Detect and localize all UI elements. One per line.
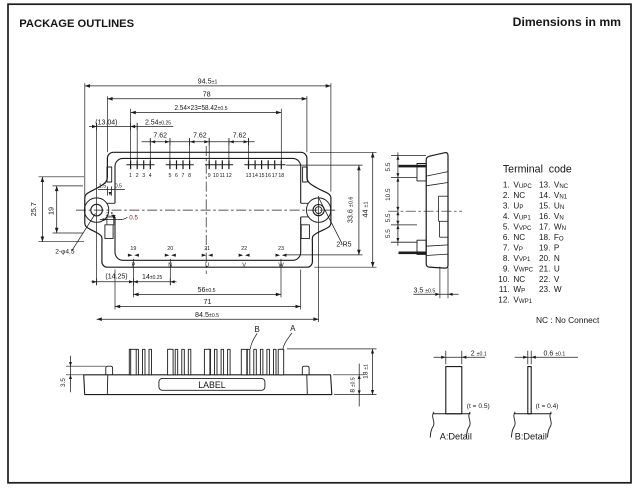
- svg-text:18: 18: [278, 173, 284, 179]
- side view bottom pins: [399, 252, 427, 255]
- svg-text:2-R5: 2-R5: [336, 241, 351, 248]
- svg-text:10: 10: [213, 173, 219, 179]
- LABEL box: [159, 378, 265, 390]
- svg-text:FO: FO: [554, 233, 564, 242]
- A detail pin: [446, 367, 462, 414]
- side view top pin boss: [417, 164, 426, 181]
- dimension 19: [56, 186, 58, 233]
- svg-text:23.: 23.: [539, 285, 550, 294]
- svg-text:V: V: [554, 275, 560, 284]
- svg-text:7.62: 7.62: [233, 133, 247, 140]
- svg-text:8.: 8.: [503, 254, 510, 263]
- svg-text:NC: NC: [513, 275, 525, 284]
- case slot bottom-right: [301, 225, 309, 239]
- svg-text:2: 2: [136, 173, 139, 179]
- pin dim extension lines: [131, 109, 282, 161]
- svg-text:VVPC: VVPC: [513, 223, 532, 232]
- svg-text:10.: 10.: [498, 275, 509, 284]
- svg-text:2 ±0.1: 2 ±0.1: [471, 350, 487, 357]
- bottom pin letters P N U V W: [132, 262, 285, 268]
- svg-text:3: 3: [142, 173, 145, 179]
- svg-text:12.: 12.: [498, 296, 509, 305]
- svg-text:7: 7: [182, 173, 185, 179]
- bottom pin marks 19-23: [128, 254, 133, 257]
- svg-text:5: 5: [168, 173, 171, 179]
- svg-text:A:Detail: A:Detail: [440, 432, 472, 442]
- svg-text:VNC: VNC: [554, 181, 569, 190]
- bottom extension lines: [115, 259, 301, 310]
- svg-text:84.5±0.5: 84.5±0.5: [195, 310, 219, 319]
- svg-text:15: 15: [259, 173, 265, 179]
- svg-text:0.6 ±0.1: 0.6 ±0.1: [544, 350, 566, 357]
- top pin group bars: [126, 164, 285, 166]
- bottom view flange: [84, 375, 332, 395]
- top pin numbers 1-18: [129, 173, 284, 179]
- module body outline (top view): [85, 152, 331, 267]
- case slot top-left: [107, 167, 112, 182]
- svg-text:Terminal code: Terminal code: [503, 163, 572, 175]
- svg-text:17: 17: [272, 173, 278, 179]
- A detail dimension 2 +-0.1: [434, 356, 486, 358]
- dimension 1.5 / 0.5 top left: [98, 188, 125, 190]
- svg-text:11.: 11.: [499, 285, 510, 294]
- svg-text:16: 16: [265, 173, 271, 179]
- svg-text:UN: UN: [554, 202, 564, 211]
- svg-text:25.7: 25.7: [29, 202, 38, 216]
- svg-text:2.54±0.25: 2.54±0.25: [145, 119, 171, 126]
- svg-text:2.: 2.: [503, 191, 510, 200]
- svg-text:19: 19: [130, 246, 136, 252]
- svg-text:VUPC: VUPC: [513, 181, 532, 190]
- svg-text:3.: 3.: [503, 202, 510, 211]
- right mounting boss ring: [306, 198, 330, 222]
- svg-text:N: N: [554, 254, 560, 263]
- dimension (14.25) and 14 +-0.25: [92, 281, 177, 283]
- svg-text:13.: 13.: [539, 181, 550, 190]
- A detail break lines: [430, 412, 434, 438]
- svg-text:VWPC: VWPC: [513, 264, 533, 273]
- dimension 25.7: [41, 177, 43, 242]
- svg-text:A: A: [290, 324, 296, 333]
- svg-text:(13.04): (13.04): [95, 119, 117, 126]
- svg-text:2-φ4.5: 2-φ4.5: [55, 249, 75, 256]
- svg-text:4.: 4.: [503, 212, 510, 221]
- side view top pins: [399, 165, 427, 168]
- svg-text:0.5: 0.5: [115, 184, 122, 190]
- dimension 71: [115, 306, 301, 308]
- svg-text:VN: VN: [554, 212, 564, 221]
- svg-text:94.5±1: 94.5±1: [198, 76, 218, 85]
- dimension 2.5 / 0.5 at left hole: [100, 219, 122, 221]
- svg-text:19.: 19.: [539, 243, 550, 252]
- svg-text:7.62: 7.62: [153, 133, 167, 140]
- svg-text:NC : No Connect: NC : No Connect: [536, 315, 600, 325]
- side view dimension 3.5 +-0.5: [439, 267, 441, 299]
- svg-text:14±0.25: 14±0.25: [142, 274, 162, 281]
- horizontal centerline: [76, 209, 338, 211]
- svg-text:P: P: [554, 243, 560, 252]
- dimension 2-phi4.5 leader: [72, 213, 96, 251]
- dimension 94.5 +-1: [85, 85, 331, 87]
- inner ledge outline: [115, 158, 301, 203]
- svg-text:B: B: [255, 325, 260, 334]
- svg-text:VUP1: VUP1: [513, 212, 531, 221]
- svg-text:17.: 17.: [539, 223, 550, 232]
- svg-text:UP: UP: [513, 202, 523, 211]
- svg-text:23: 23: [278, 246, 284, 252]
- svg-text:8: 8: [188, 173, 191, 179]
- dimension 84.5 +-0.5: [97, 318, 319, 320]
- svg-text:3.5 ±0.5: 3.5 ±0.5: [414, 287, 436, 294]
- svg-text:8 ±0.5: 8 ±0.5: [350, 377, 357, 392]
- svg-text:12: 12: [226, 173, 232, 179]
- dimension 3.5 bottom view: [70, 356, 72, 393]
- left ear notch lines: [107, 202, 115, 204]
- svg-text:2.5: 2.5: [106, 212, 114, 218]
- B detail break lines: [511, 412, 515, 438]
- svg-text:Dimensions in mm: Dimensions in mm: [513, 15, 622, 29]
- dimension 78: [107, 98, 307, 100]
- dimension 56 +-0.5: [133, 293, 281, 295]
- svg-text:6.: 6.: [503, 233, 510, 242]
- svg-text:14: 14: [252, 173, 258, 179]
- svg-text:20: 20: [167, 246, 173, 252]
- side view 5.5/10.5/5.5/5.5 chain dimension: [397, 152, 399, 245]
- svg-text:5.: 5.: [503, 223, 510, 232]
- dimension 18 +-1: [372, 349, 374, 395]
- svg-text:16.: 16.: [539, 212, 550, 221]
- dimension (13.04) and 2.54 +-0.25: [89, 126, 173, 128]
- svg-text:19: 19: [47, 207, 56, 215]
- svg-text:WN: WN: [554, 223, 566, 232]
- svg-text:5.5: 5.5: [385, 162, 392, 171]
- svg-text:0.5: 0.5: [129, 214, 138, 221]
- svg-text:2.54×23=58.42±0.5: 2.54×23=58.42±0.5: [174, 103, 227, 112]
- svg-text:9.: 9.: [503, 264, 510, 273]
- svg-text:14.: 14.: [539, 191, 550, 200]
- dimension 33.6 +-0.6: [358, 165, 360, 255]
- B detail pin: [528, 367, 531, 414]
- svg-text:4: 4: [149, 173, 152, 179]
- svg-text:VN1: VN1: [554, 191, 568, 200]
- svg-text:78: 78: [203, 89, 211, 98]
- case slot top-right: [303, 167, 308, 182]
- svg-text:B:Detail: B:Detail: [515, 432, 547, 442]
- svg-text:22: 22: [241, 246, 247, 252]
- terminal code list: [498, 181, 568, 305]
- right ear notch lines: [301, 202, 309, 204]
- right hole crosshair: [318, 196, 320, 322]
- dimension 2-R5 leader: [319, 198, 343, 244]
- left mounting boss ring: [84, 198, 108, 222]
- svg-text:15.: 15.: [539, 202, 550, 211]
- svg-text:1.: 1.: [503, 181, 510, 190]
- side view centerline: [388, 210, 462, 212]
- left mounting hole: [91, 204, 103, 216]
- svg-text:11: 11: [220, 173, 225, 179]
- side view case outline: [426, 153, 448, 268]
- svg-text:71: 71: [204, 297, 212, 306]
- svg-text:22.: 22.: [539, 275, 550, 284]
- svg-text:5.5: 5.5: [385, 213, 392, 222]
- svg-text:21: 21: [204, 246, 210, 252]
- svg-text:18.: 18.: [539, 233, 550, 242]
- svg-text:(t = 0.4): (t = 0.4): [536, 403, 559, 410]
- svg-text:44 ±1: 44 ±1: [360, 202, 369, 218]
- svg-text:6: 6: [175, 173, 178, 179]
- svg-text:(14.25): (14.25): [105, 274, 127, 281]
- svg-text:VP: VP: [513, 243, 523, 252]
- svg-text:10.5: 10.5: [385, 188, 392, 201]
- svg-text:7.62: 7.62: [193, 133, 207, 140]
- svg-text:WP: WP: [513, 285, 525, 294]
- dimension 8 +-0.5: [358, 364, 360, 407]
- svg-text:21.: 21.: [539, 264, 550, 273]
- svg-text:18 ±1: 18 ±1: [363, 364, 370, 379]
- svg-text:5.5: 5.5: [385, 229, 392, 238]
- top pin ticks 1-18: [131, 160, 282, 169]
- svg-text:33.6 ±0.6: 33.6 ±0.6: [346, 197, 355, 223]
- B detail dimension 0.6 +-0.1: [515, 356, 578, 358]
- dimension 44 +-1: [372, 152, 374, 267]
- right mounting hole: [313, 205, 324, 216]
- svg-text:1: 1: [129, 173, 132, 179]
- svg-text:(t = 0.5): (t = 0.5): [467, 403, 490, 410]
- case slot bottom-left: [105, 225, 113, 239]
- svg-text:VWP1: VWP1: [513, 296, 532, 305]
- svg-text:1.5: 1.5: [99, 184, 106, 190]
- svg-text:20.: 20.: [539, 254, 550, 263]
- svg-text:U: U: [554, 264, 560, 273]
- bottom view pins comb: [129, 349, 282, 375]
- svg-text:9: 9: [208, 173, 211, 179]
- vertical centerline: [205, 146, 207, 274]
- svg-text:NC: NC: [513, 191, 525, 200]
- svg-text:U: U: [205, 262, 209, 268]
- dimension 7.62 pitch x3: [142, 141, 255, 143]
- bottom view case bumps: [106, 366, 113, 375]
- svg-text:V: V: [242, 262, 246, 268]
- svg-text:NC: NC: [513, 233, 525, 242]
- svg-text:LABEL: LABEL: [198, 380, 225, 390]
- svg-text:56±0.5: 56±0.5: [197, 285, 215, 294]
- svg-text:PACKAGE OUTLINES: PACKAGE OUTLINES: [19, 18, 134, 30]
- svg-text:7.: 7.: [503, 243, 510, 252]
- svg-text:VVP1: VVP1: [513, 254, 531, 263]
- side view face lines: [426, 172, 448, 177]
- left hole crosshair: [96, 123, 98, 285]
- dimension 2.54x23=58.42 +-0.5: [131, 112, 282, 114]
- bottom pin numbers 19-23: [130, 246, 284, 252]
- side view bottom pin boss: [417, 240, 426, 254]
- svg-text:W: W: [554, 285, 562, 294]
- svg-text:13: 13: [246, 173, 252, 179]
- svg-text:3.5: 3.5: [60, 378, 67, 387]
